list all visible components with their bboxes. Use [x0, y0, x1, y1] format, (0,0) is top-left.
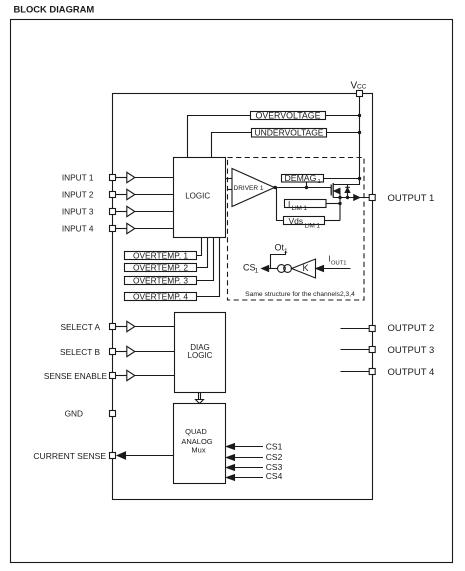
svg-text:OUTPUT 3: OUTPUT 3 [388, 345, 435, 356]
svg-text:CC: CC [357, 83, 367, 90]
svg-text:1: 1 [255, 268, 259, 275]
svg-text:OUTPUT 1: OUTPUT 1 [388, 193, 435, 204]
svg-text:ANALOG: ANALOG [181, 437, 212, 446]
svg-text:CS2: CS2 [266, 452, 283, 462]
svg-text:BLOCK DIAGRAM: BLOCK DIAGRAM [14, 3, 95, 14]
svg-text:OUT1: OUT1 [331, 260, 346, 266]
svg-text:OUTPUT 2: OUTPUT 2 [388, 323, 435, 334]
svg-text:INPUT 3: INPUT 3 [62, 206, 94, 216]
svg-text:LOGIC: LOGIC [188, 351, 213, 360]
svg-text:INPUT 1: INPUT 1 [62, 172, 94, 182]
svg-text:1: 1 [284, 248, 288, 255]
svg-text:DEMAG: DEMAG [285, 173, 317, 183]
svg-text:Mux: Mux [191, 446, 205, 455]
svg-text:DRIVER 1: DRIVER 1 [234, 185, 264, 192]
svg-text:INPUT 2: INPUT 2 [62, 189, 94, 199]
svg-text:SELECT A: SELECT A [60, 322, 100, 332]
svg-text:LIM 1: LIM 1 [305, 223, 321, 230]
svg-text:OVERTEMP. 1: OVERTEMP. 1 [133, 250, 188, 260]
svg-text:UNDERVOLTAGE: UNDERVOLTAGE [255, 128, 324, 138]
svg-text:CURRENT SENSE: CURRENT SENSE [33, 451, 106, 461]
svg-text:INPUT 4: INPUT 4 [62, 223, 94, 233]
svg-text:I: I [288, 199, 290, 209]
svg-text:OVERTEMP. 2: OVERTEMP. 2 [133, 262, 188, 272]
svg-text:QUAD: QUAD [185, 427, 207, 436]
svg-text:K: K [303, 263, 309, 273]
svg-text:CS4: CS4 [266, 471, 283, 481]
svg-text:SELECT B: SELECT B [60, 347, 100, 357]
svg-text:GND: GND [65, 408, 83, 418]
svg-text:Ot: Ot [275, 243, 285, 253]
svg-text:LIM 1: LIM 1 [292, 205, 308, 212]
svg-text:OVERTEMP. 3: OVERTEMP. 3 [133, 275, 188, 285]
svg-text:Same structure for the channel: Same structure for the channels2,3,4 [245, 291, 355, 298]
svg-text:CS: CS [243, 262, 256, 272]
svg-text:CS1: CS1 [266, 442, 283, 452]
svg-text:LOGIC: LOGIC [185, 191, 210, 200]
svg-text:Vds: Vds [289, 216, 304, 226]
svg-text:SENSE ENABLE: SENSE ENABLE [44, 371, 108, 381]
svg-text:OVERTEMP. 4: OVERTEMP. 4 [133, 291, 188, 301]
svg-text:1: 1 [318, 179, 321, 185]
svg-text:OUTPUT 4: OUTPUT 4 [388, 367, 435, 378]
svg-text:OVERVOLTAGE: OVERVOLTAGE [255, 111, 320, 121]
